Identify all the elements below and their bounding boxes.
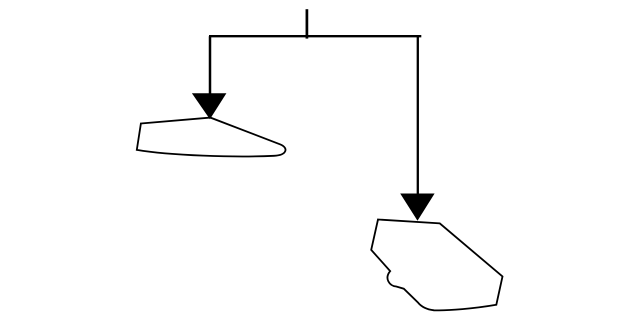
wire W4 (right branch vertical drop)	[417, 36, 419, 195]
arrowhead A1 (left, filled, pointing down)	[192, 93, 227, 119]
arrowhead A2 (right, filled, pointing down)	[400, 194, 434, 221]
wire W3 (left branch vertical drop)	[209, 36, 212, 95]
wire W1 (top vertical stub)	[306, 9, 309, 38]
blob B2 (right irregular outline region with notch)	[371, 220, 502, 311]
wire W2 (horizontal branch bar)	[209, 35, 421, 37]
blob B1 (left irregular outline region)	[137, 118, 286, 157]
